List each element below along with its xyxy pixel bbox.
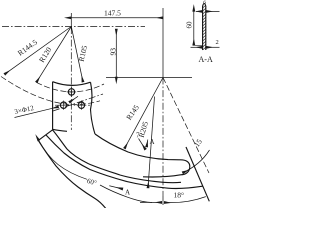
3xPhi12 leader [15,107,59,118]
7 leader arrow [139,139,146,150]
section A upper arrow [147,140,148,148]
radius line R144.5 [5,27,72,75]
60 dim vertical [193,11,195,45]
section hatching [203,5,206,50]
hole top [68,89,74,95]
radius line R120 [36,27,71,83]
svg-text:A: A [125,189,130,197]
dashed arc R120 (through top hole) [36,82,104,92]
band inner rim curve [46,135,203,189]
svg-text:147.5: 147.5 [104,9,121,18]
horizontal centerline through lower holes [55,104,90,106]
dimension 93 [115,29,117,77]
svg-text:6: 6 [203,0,206,6]
band inner edge [53,130,181,183]
centerline horizontal through C1 [2,26,145,28]
centerline below C2 [162,78,164,197]
horizontal line through C2 [106,77,192,79]
radius line R205 [148,97,155,189]
boss right edge + fillet into arm upper arc [91,82,96,134]
2 dim [191,46,203,48]
left end edge [38,130,52,141]
boss left edge [52,82,54,130]
boss top edge arc [53,82,91,86]
boss bottom lip [53,129,67,131]
vertical centerline through boss [70,27,72,130]
hole right [78,102,84,108]
lobe lower arc [143,175,181,177]
lobe right cap [180,160,190,175]
18 degree dimension [140,201,162,203]
section A-A bar left edge [202,6,204,50]
right end edge [186,147,209,201]
vertical line through C2 [162,8,164,78]
section A-A bar right edge [205,6,207,50]
svg-text:2: 2 [216,39,219,46]
svg-text:A: A [150,138,155,146]
section A-A top cap [203,3,206,6]
dashed phantom radial at right [163,78,209,174]
svg-text:18°: 18° [174,191,185,200]
dash-dot diagonal centerline through boss [53,94,103,111]
section A lower arrow [109,186,123,189]
dimension 147.5 [71,17,163,19]
radius line R105 [71,27,83,83]
svg-text:A-A: A-A [199,55,213,64]
band outer edge [38,140,106,208]
hole left [60,102,66,108]
svg-text:7: 7 [136,132,140,140]
svg-text:93: 93 [109,48,118,56]
6 dim [196,10,202,12]
15 dim leader [183,150,210,173]
leader arrow at left hole from upper right [69,96,78,102]
dashed arc R144.5 (through lower holes) [1,77,100,105]
svg-text:60: 60 [186,21,194,29]
radius line R145 [125,78,164,149]
60 degree dimension arc [39,141,87,180]
channel top arc (R145 arc) to right lobe [95,134,180,160]
vertical extension line above C1 [70,13,72,27]
